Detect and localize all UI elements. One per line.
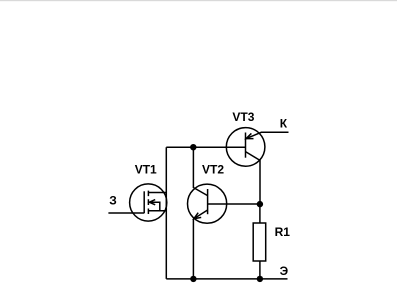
svg-text:VT1: VT1 bbox=[135, 162, 157, 176]
svg-text:Э: Э bbox=[280, 264, 289, 278]
svg-text:VT2: VT2 bbox=[202, 162, 224, 176]
svg-text:VT3: VT3 bbox=[232, 110, 254, 124]
svg-text:З: З bbox=[109, 193, 117, 207]
svg-text:R1: R1 bbox=[275, 225, 291, 239]
svg-text:К: К bbox=[280, 116, 288, 130]
